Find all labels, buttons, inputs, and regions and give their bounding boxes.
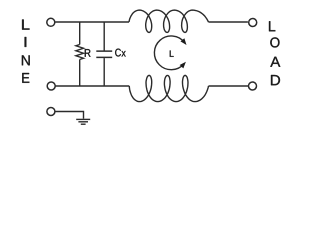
label LOAD L <box>269 21 275 31</box>
label LINE I <box>25 37 27 47</box>
wire capacitor-top <box>103 22 105 51</box>
terminal load-top <box>249 19 257 27</box>
label LINE E <box>22 73 29 83</box>
label LOAD D <box>271 75 280 85</box>
inductor top winding <box>129 10 209 32</box>
terminal line-top <box>47 18 55 26</box>
resistor R <box>76 45 84 60</box>
wire resistor-bottom <box>79 60 81 87</box>
label LOAD O <box>270 37 279 47</box>
label L inductance <box>170 51 174 57</box>
label Cx x <box>122 51 126 57</box>
coupling arrow L <box>154 36 184 70</box>
label LINE N <box>22 55 30 65</box>
coupling arrowhead top <box>180 38 186 45</box>
wire bottom-left <box>56 85 130 87</box>
label LOAD A <box>270 57 280 67</box>
label Cx C <box>115 49 121 57</box>
wire ground-lead <box>55 112 83 119</box>
wire capacitor-bottom <box>103 58 105 86</box>
ground <box>76 119 90 124</box>
wire top-right <box>209 21 248 23</box>
terminal ground <box>47 108 55 116</box>
coupling arrowhead bottom <box>180 62 186 69</box>
terminal line-bottom <box>47 82 55 90</box>
wire bottom-right <box>209 85 249 87</box>
inductor bottom winding <box>129 75 208 101</box>
terminal load-bottom <box>249 82 257 90</box>
label R <box>85 49 91 57</box>
wire resistor-top <box>79 22 81 45</box>
wire top-left <box>55 21 129 23</box>
label LINE L <box>22 20 29 30</box>
capacitor Cx <box>96 51 112 57</box>
